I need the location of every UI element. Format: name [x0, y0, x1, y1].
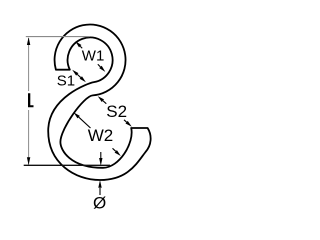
arrowheads [27, 37, 30, 45]
diameter dimension arrows [100, 152, 102, 158]
L label [28, 93, 34, 107]
svg-text:W1: W1 [82, 47, 105, 64]
W2 dimension [74, 112, 80, 118]
svg-text:W2: W2 [88, 126, 114, 145]
svg-text:Ø: Ø [93, 193, 106, 212]
L dimension: bottom extension line [24, 164, 110, 166]
S-hook wire body [48, 25, 150, 180]
S2 dimension [98, 96, 104, 102]
L dimension: top extension line [26, 36, 89, 38]
W1 dimension [75, 41, 81, 47]
S1 dimension [72, 70, 78, 76]
L dimension: vertical line [28, 38, 30, 91]
svg-text:S1: S1 [57, 72, 75, 89]
svg-text:S2: S2 [106, 102, 127, 121]
